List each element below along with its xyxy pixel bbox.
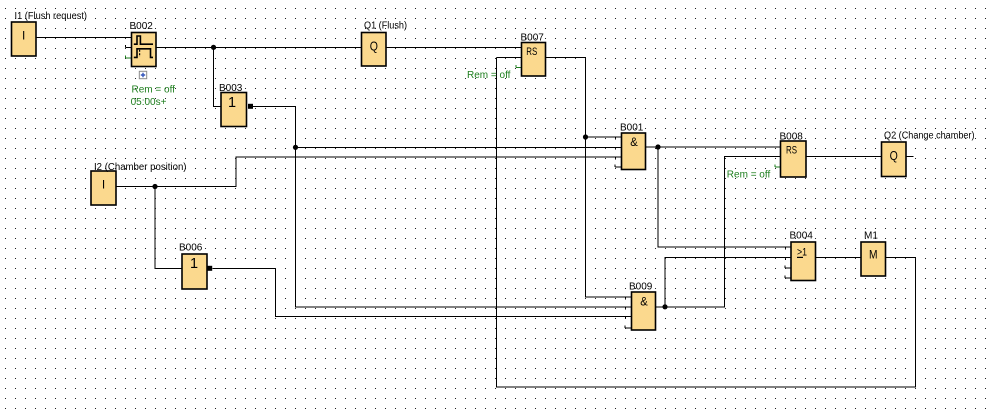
svg-text:Q: Q bbox=[370, 38, 378, 53]
svg-text:I1 (Flush request): I1 (Flush request) bbox=[15, 11, 88, 22]
svg-text:&: & bbox=[640, 295, 648, 309]
svg-text:B001: B001 bbox=[620, 122, 644, 133]
svg-text:B009: B009 bbox=[629, 281, 653, 292]
svg-text:RS: RS bbox=[526, 46, 537, 58]
svg-text:M: M bbox=[869, 247, 878, 261]
svg-text:Rem = off: Rem = off bbox=[727, 170, 771, 181]
svg-text:B004: B004 bbox=[790, 231, 814, 242]
svg-text:1: 1 bbox=[228, 95, 236, 111]
svg-text:I2 (Chamber position): I2 (Chamber position) bbox=[94, 162, 187, 173]
svg-text:Q2 (Change chamber): Q2 (Change chamber) bbox=[884, 130, 975, 141]
svg-text:B007: B007 bbox=[521, 33, 545, 44]
svg-text:Rem = off: Rem = off bbox=[467, 70, 511, 81]
svg-text:05:00s+: 05:00s+ bbox=[131, 97, 167, 108]
svg-text:Rem = off: Rem = off bbox=[132, 84, 176, 95]
svg-text:B002: B002 bbox=[130, 21, 154, 32]
svg-text:B003: B003 bbox=[219, 83, 243, 94]
svg-text:1: 1 bbox=[190, 256, 198, 272]
svg-text:RS: RS bbox=[786, 144, 797, 156]
svg-text:I: I bbox=[102, 177, 105, 191]
svg-text:>1: >1 bbox=[797, 246, 807, 258]
svg-text:B006: B006 bbox=[179, 243, 203, 254]
svg-text:I: I bbox=[22, 28, 25, 42]
svg-text:M1: M1 bbox=[864, 231, 878, 242]
svg-text:&: & bbox=[630, 135, 638, 149]
svg-text:Q: Q bbox=[890, 148, 898, 163]
svg-text:B008: B008 bbox=[780, 132, 804, 143]
svg-text:Q1 (Flush): Q1 (Flush) bbox=[364, 21, 407, 32]
